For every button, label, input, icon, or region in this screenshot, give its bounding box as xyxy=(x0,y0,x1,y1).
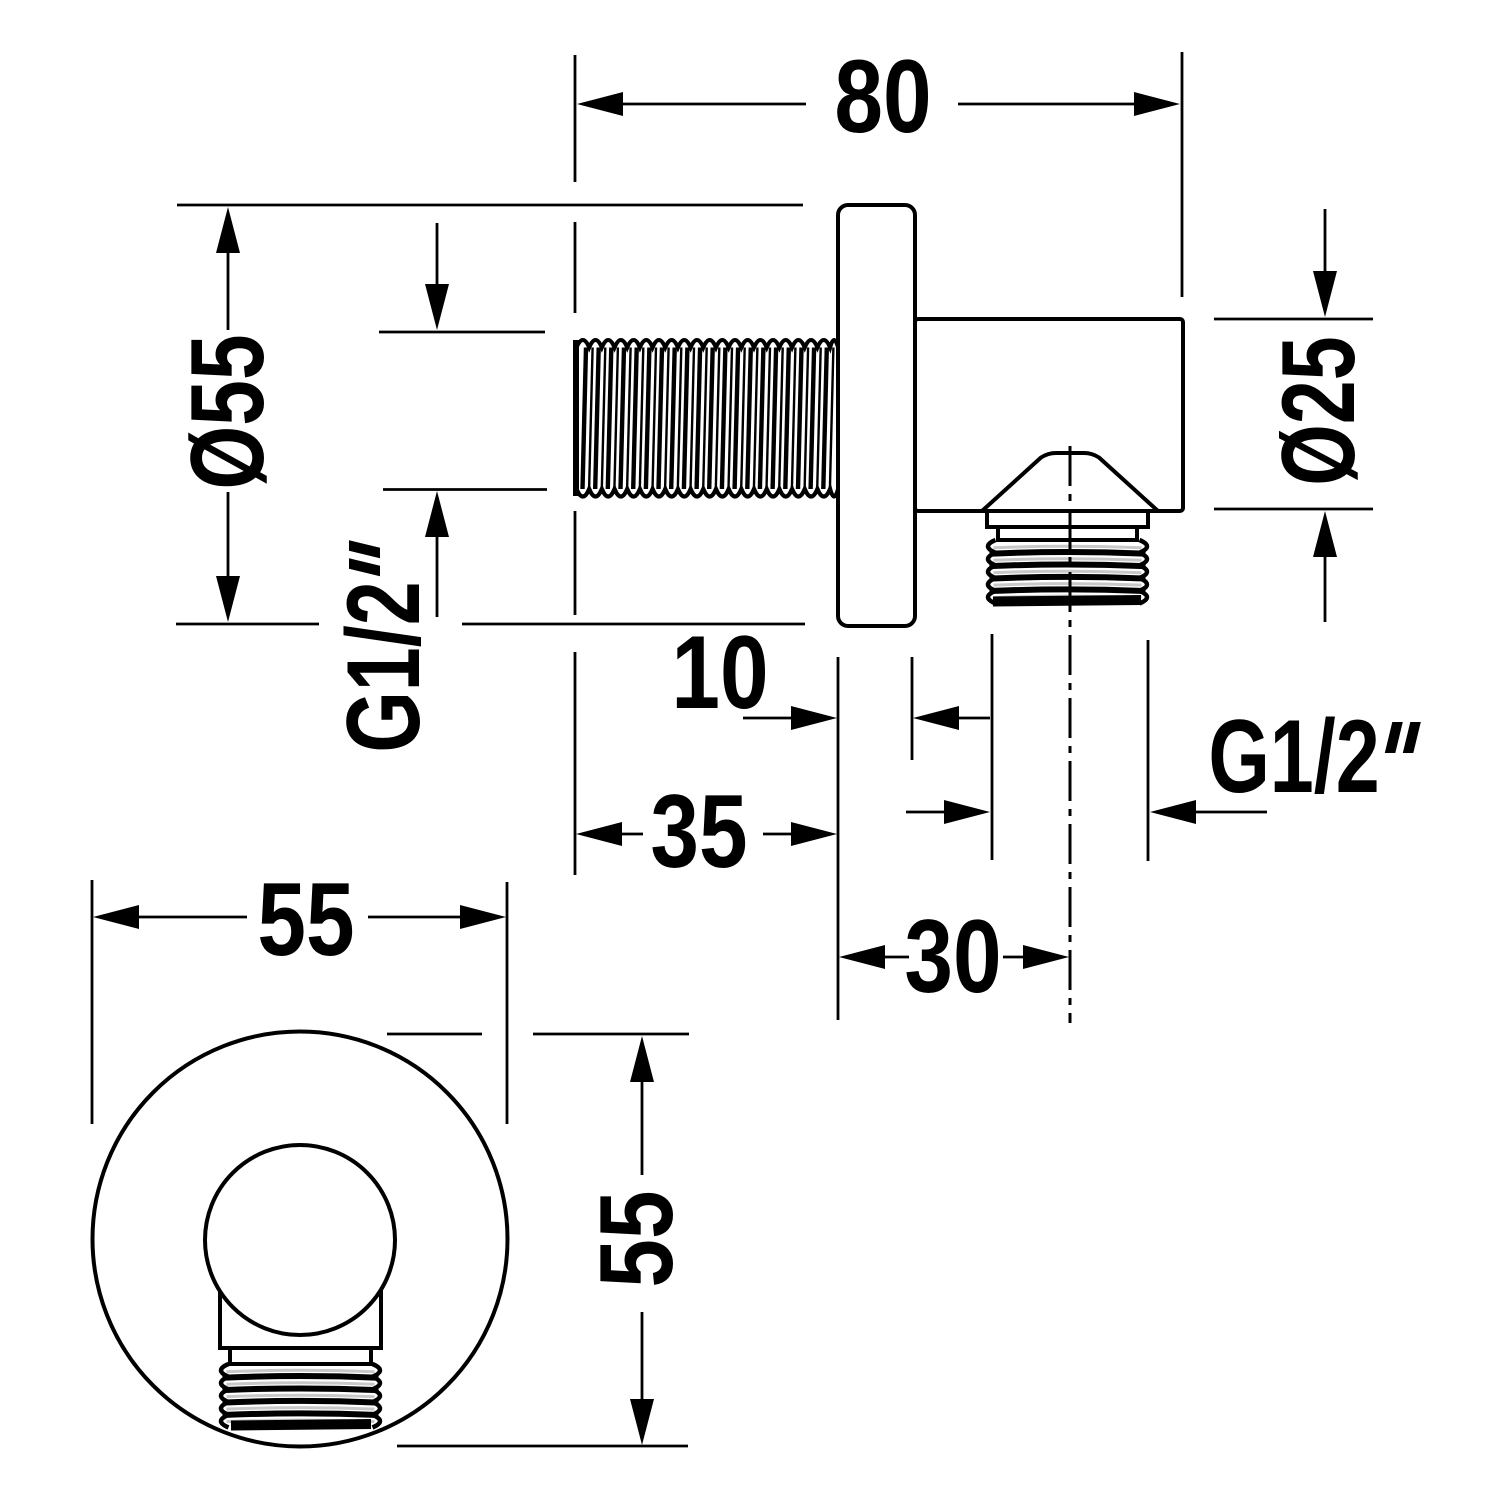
dimension ø25 extension lines xyxy=(1214,319,1373,509)
dimension 10 extension lines xyxy=(838,657,912,1020)
dimension 55 vertical extension lines xyxy=(387,1034,689,1446)
outlet cone (side view) xyxy=(982,453,1158,509)
G1/2 outlet extension lines xyxy=(992,634,1148,861)
dimension 80 extension line right xyxy=(1181,52,1184,297)
flange outer circle (front view) xyxy=(93,1032,508,1447)
dimension 80 line and arrows xyxy=(577,92,1180,116)
svg-text:35: 35 xyxy=(650,774,747,890)
svg-text:80: 80 xyxy=(834,39,931,155)
outlet circle (front view) xyxy=(205,1145,395,1335)
svg-text:55: 55 xyxy=(579,1190,695,1287)
dimension 30 line and arrows xyxy=(839,945,1069,969)
G1/2 inlet arrows xyxy=(425,223,449,617)
svg-text:Ø55: Ø55 xyxy=(169,334,286,489)
svg-text:Ø25: Ø25 xyxy=(1259,336,1376,485)
wall flange (side view) xyxy=(838,205,915,626)
G1/2 inlet label xyxy=(324,540,441,752)
outlet thread (front view) xyxy=(221,1364,380,1427)
dimension 35 line and arrows xyxy=(576,822,837,846)
dimension 80 extension line left xyxy=(574,55,577,875)
G1/2 inlet extension lines xyxy=(379,332,547,490)
outlet collar (front view) xyxy=(218,1290,383,1364)
dimension 55 vertical line and arrows xyxy=(630,1036,654,1445)
outlet collar (side view) xyxy=(985,511,1150,540)
dimension 55 horizontal extension lines xyxy=(92,880,507,1124)
inlet pipe threaded (side view) xyxy=(576,340,838,497)
outlet thread (side view) xyxy=(988,540,1147,604)
svg-text:G1/2: G1/2 xyxy=(324,581,441,752)
dimension ø55 extension line bottom xyxy=(176,623,805,626)
dimension ø55 extension line top xyxy=(177,204,803,207)
body block (side view) xyxy=(915,319,1183,511)
dimension 10 arrows xyxy=(743,706,990,730)
outlet centerline (dash-dot) xyxy=(1069,446,1072,1023)
svg-text:G1/2: G1/2 xyxy=(1208,697,1379,814)
svg-text:30: 30 xyxy=(904,899,1001,1015)
G1/2 outlet label xyxy=(1208,697,1420,814)
G1/2 outlet arrows xyxy=(906,800,1267,824)
dimension ø25 arrows xyxy=(1313,209,1337,622)
svg-text:55: 55 xyxy=(257,862,354,978)
svg-text:10: 10 xyxy=(671,615,768,731)
dimension 55 horizontal line and arrows xyxy=(93,905,506,929)
dimension ø55 line and arrows xyxy=(216,207,240,622)
